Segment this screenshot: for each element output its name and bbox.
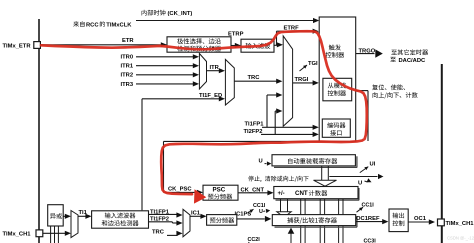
node reset enable up/down count label — [372, 84, 417, 98]
svg-text:PSC: PSC — [213, 186, 226, 193]
svg-text:U: U — [259, 159, 263, 165]
svg-text:TRC: TRC — [152, 230, 165, 236]
svg-text:ITR0: ITR0 — [121, 55, 134, 61]
mux TRGI selector — [283, 36, 292, 126]
wire TI1FP2 lower — [149, 217, 183, 226]
wire TI2FP2 branch to mux — [275, 108, 282, 134]
node CC2I interrupt — [248, 237, 261, 243]
node TIMx_CH1 output pin — [438, 219, 474, 227]
wire ETRF to trigger controller — [277, 26, 319, 46]
node CK_INT internal clock label — [142, 10, 193, 17]
block auto-reload register — [272, 155, 357, 168]
svg-text:OC1: OC1 — [414, 216, 427, 222]
node CC1I interrupt right — [357, 202, 375, 212]
node watermark — [447, 236, 474, 241]
svg-text:TI1FP1: TI1FP1 — [245, 122, 265, 128]
wire OC1REF — [356, 216, 389, 224]
wire CK_CNT — [238, 188, 274, 196]
block input filter ETR — [241, 39, 274, 52]
node TGI interrupt flag — [300, 61, 319, 71]
node U event small left of capture — [259, 208, 271, 215]
block output control — [389, 209, 408, 232]
wire capture input from below — [288, 228, 295, 243]
wire ITR — [207, 65, 226, 73]
svg-text:RCC: RCC — [86, 22, 99, 28]
wire TRC lower — [152, 230, 183, 236]
node CC3I interrupt — [364, 239, 377, 243]
wire ITR0 — [121, 54, 200, 61]
svg-text:OC1REF: OC1REF — [356, 216, 380, 222]
block trigger controller — [319, 17, 356, 141]
block CNT counter — [274, 187, 359, 201]
svg-text:TIMxCLK: TIMxCLK — [106, 22, 132, 28]
svg-text:CC3I: CC3I — [364, 239, 377, 243]
wire OC1 — [408, 216, 435, 225]
wire TI1FP1 lower — [149, 209, 183, 217]
node stop clear up/down label — [248, 176, 309, 182]
svg-text:ETR: ETR — [122, 38, 134, 44]
svg-text:CNT: CNT — [295, 190, 308, 197]
block encoder interface — [322, 119, 350, 137]
svg-text:TI2FP2: TI2FP2 — [244, 129, 263, 135]
svg-text:TRC: TRC — [248, 75, 261, 81]
block capture/compare 1 register — [272, 215, 357, 228]
wire IC1 — [190, 210, 207, 219]
wire XOR inputs from CH1 CH2 CH3 — [51, 226, 59, 243]
svg-text:TGI: TGI — [308, 61, 318, 67]
block PSC prescaler — [203, 185, 238, 200]
svg-text:ETRP: ETRP — [228, 32, 244, 38]
svg-text:TIMx_CH1: TIMx_CH1 — [3, 232, 32, 238]
node TIMx_ETR pin — [3, 42, 41, 50]
mux IC1 selector — [183, 209, 190, 237]
wire right border TIMx pin rail — [441, 64, 443, 243]
wire ITR3 — [121, 81, 200, 88]
svg-text:ITR1: ITR1 — [121, 64, 134, 70]
svg-text:UI: UI — [370, 161, 376, 167]
node UI interrupt — [360, 161, 376, 172]
wire TI1 — [78, 210, 92, 219]
wire CK_PSC from trigger controller bottom — [164, 141, 320, 195]
svg-text:CC2I: CC2I — [248, 237, 261, 243]
wire ETRF to mux — [274, 42, 283, 47]
wire TRGI — [293, 77, 319, 86]
svg-text:CC1I: CC1I — [362, 202, 375, 208]
block input filter and edge detector — [92, 211, 149, 228]
node TIMxCLK from RCC label — [73, 21, 132, 28]
wire ITR2 — [121, 72, 200, 79]
svg-text:(CK_INT): (CK_INT) — [168, 11, 193, 17]
svg-text:ITR2: ITR2 — [121, 73, 134, 79]
wire TI2FP2 to encoder — [244, 129, 319, 137]
node U event symbol right — [358, 178, 372, 186]
wire TI1FP1 to encoder — [245, 122, 319, 130]
wire slave-mode control to counter — [356, 91, 368, 141]
svg-text:CK_PSC: CK_PSC — [168, 187, 192, 193]
wire TI1F_ED — [142, 93, 225, 210]
wire left border TIMx pin rail — [38, 19, 40, 243]
svg-text:U: U — [358, 180, 362, 186]
svg-text:ITR: ITR — [210, 65, 220, 71]
wire XOR output — [63, 214, 71, 219]
block polarity-select edge-detect prescaler — [167, 37, 231, 52]
mux ITR selector — [199, 54, 206, 90]
wire IC1PS — [235, 212, 272, 222]
block XOR — [48, 205, 64, 226]
svg-text:TIMx_CH1: TIMx_CH1 — [446, 221, 474, 227]
mux TRC selector — [225, 59, 234, 105]
svg-text:+/-: +/- — [278, 191, 285, 197]
wire ITR1 — [121, 63, 200, 70]
node TIMx_CH1 input pin — [3, 230, 43, 238]
wire ETRP — [228, 32, 244, 49]
wire TRGO to other timers and DAC/ADC — [356, 48, 428, 63]
block IC1 prescaler — [207, 215, 237, 226]
wire update hollow arrow auto-reload to CNT — [314, 166, 337, 186]
wire shadow transfer shafts to CC2/3/4 — [301, 199, 343, 243]
wire U event to right — [329, 174, 383, 179]
svg-text:ITR3: ITR3 — [121, 82, 134, 88]
node U event left of auto-reload — [259, 159, 272, 166]
wire CH1 input — [43, 231, 71, 236]
svg-text:IC1: IC1 — [191, 210, 201, 216]
svg-text:TRGI: TRGI — [295, 77, 309, 83]
svg-text:U: U — [259, 209, 263, 215]
wire hollow arrow CNT to capture/compare 1 — [277, 199, 291, 218]
block slave mode controller — [323, 78, 352, 101]
wire TI1FP1 branch to mux — [267, 92, 282, 127]
svg-text:CSDN @-_-123: CSDN @-_-123 — [447, 236, 474, 241]
wire ETR — [40, 38, 167, 47]
wire red annotation ETR signal trace — [41, 31, 367, 203]
svg-text:DAC/ADC: DAC/ADC — [399, 58, 427, 64]
wire CK_INT — [136, 18, 319, 23]
node CC1I interrupt left — [248, 203, 266, 213]
wire TRC upper — [234, 75, 282, 84]
svg-text:TIMx_ETR: TIMx_ETR — [3, 43, 32, 49]
mux TI1 XOR selector — [71, 211, 78, 238]
